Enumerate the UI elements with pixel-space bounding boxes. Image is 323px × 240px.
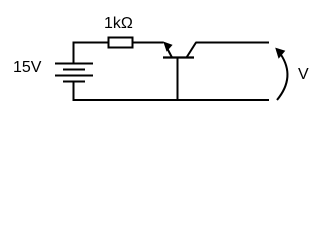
transistor Q1 base bar <box>163 56 194 58</box>
battery V1 short plate 1 <box>63 69 85 71</box>
transistor Q1 base lead down <box>177 58 179 101</box>
battery V1 short plate 2 <box>63 81 85 83</box>
transistor Q1 emitter arrowhead <box>163 42 172 52</box>
arrow curved V reference <box>277 54 287 100</box>
battery V1 long plate 1 <box>55 63 93 65</box>
resistor R 1kΩ body <box>109 38 133 48</box>
transistor Q1 collector line <box>187 43 197 58</box>
wire bottom rail <box>73 99 270 101</box>
wire top-right from collector to output <box>196 42 270 44</box>
svg-text:15V: 15V <box>13 59 42 76</box>
wire top-left from battery to resistor <box>74 43 109 64</box>
svg-text:1kΩ: 1kΩ <box>104 15 133 32</box>
wire battery bottom stub <box>73 82 75 100</box>
battery V1 long plate 2 <box>55 75 93 77</box>
transistor Q1 emitter line <box>166 46 172 58</box>
svg-text:V: V <box>298 66 309 83</box>
wire resistor to transistor emitter <box>133 42 164 44</box>
arrowhead of V reference <box>275 48 285 59</box>
